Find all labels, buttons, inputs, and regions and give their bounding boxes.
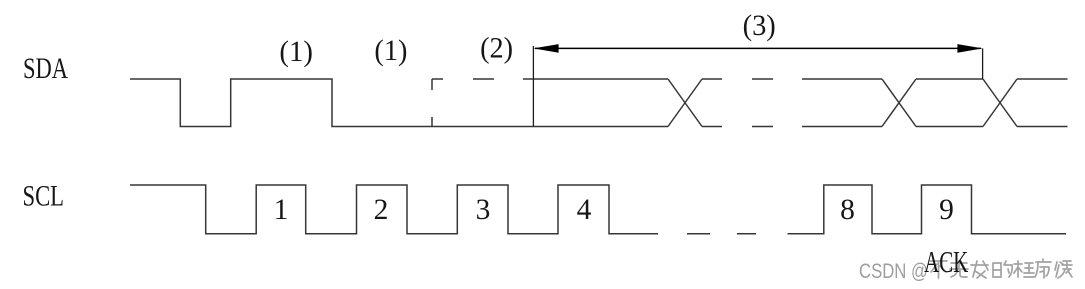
svg-text:SDA: SDA [23,52,68,85]
SCL dashed low segment [687,233,756,235]
SDA dashed high+low after X1 [702,79,773,127]
SDA crossover X1 [668,79,702,127]
hanzi bu [930,261,947,278]
SDA solid high+low tail [1017,79,1068,127]
SDA waveform: start high, pulse low, high, long low [130,79,668,127]
SDA solid high+low before X2 [802,79,882,127]
SCL waveform: pulses 1-4 [130,185,658,234]
svg-text:1: 1 [274,194,289,226]
svg-text:SCL: SCL [23,180,65,213]
svg-text:9: 9 [939,194,954,226]
svg-text:2: 2 [374,194,389,226]
svg-text:(3): (3) [743,9,776,42]
svg-text:4: 4 [577,194,592,226]
svg-text:(1): (1) [374,34,407,67]
SDA solid high after start marker [533,78,668,80]
svg-text:(2): (2) [480,32,513,65]
SDA crossover X2 [882,79,916,127]
hanzi xu [1035,259,1051,278]
SDA dashed vertical edge at repeated-start region [431,79,433,127]
SCL pulses 8-9 and tail [788,185,1067,234]
svg-text:(1): (1) [279,35,313,68]
svg-text:ACK: ACK [924,244,969,279]
SDA crossover X3 [983,79,1017,127]
svg-text:CSDN @: CSDN @ [859,259,928,283]
svg-text:3: 3 [476,194,491,226]
hanzi tu [950,261,968,277]
hanzi de [993,261,1012,277]
end marker vertical line at arrow right [982,48,984,79]
hanzi yuan [1055,261,1072,278]
SDA dashed high segment [432,78,533,80]
watermark hanzi strokes (vector approximation) [930,259,1072,278]
right arrowhead [957,44,982,53]
hanzi fa [971,261,988,278]
svg-text:8: 8 [840,194,855,226]
left arrowhead [533,44,558,53]
start condition marker vertical line (2) [532,46,534,127]
SDA solid high+low between X2 and X3 [916,79,983,127]
dimension arrow line (3) [535,47,981,49]
hanzi cheng [1014,261,1034,277]
